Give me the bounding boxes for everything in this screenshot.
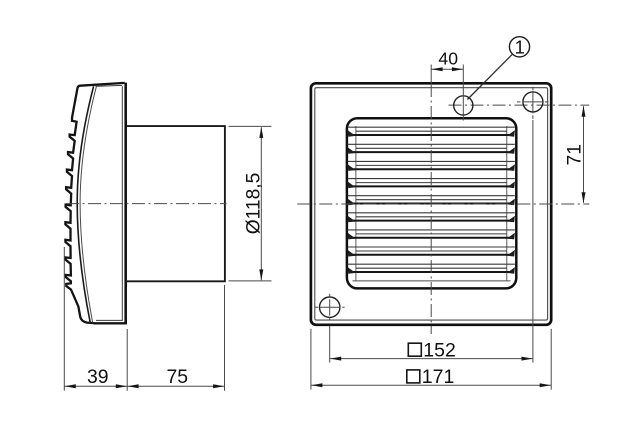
callout leader line: [467, 54, 512, 99]
top middle hole vertical extension: [462, 65, 464, 121]
cover front crease curve (outer): [77, 86, 93, 322]
dimension Ø118,5 extension bottom: [229, 280, 272, 282]
top right hole crosshair horizontal: [517, 101, 549, 103]
mounting hole top right: [523, 92, 543, 112]
arrow 39 right: [116, 384, 127, 388]
dimension Ø118,5 extension top: [229, 125, 272, 127]
grille left bevel line: [355, 126, 357, 281]
cover bottom edge: [93, 322, 126, 324]
top right hole crosshair vertical / extension to dim 152: [532, 87, 534, 120]
grille slat 6: [348, 213, 515, 223]
svg-text:71: 71: [565, 144, 586, 165]
dim 152 line: [330, 358, 533, 360]
arrow 71 top: [582, 106, 586, 117]
svg-text:39: 39: [87, 366, 109, 388]
dimension Ø118,5 line: [260, 127, 262, 280]
hole centerline horizontal (through top holes): [449, 104, 590, 106]
vertical centerline of plate: [430, 65, 432, 85]
dim 171 extension right: [550, 329, 552, 390]
dim 171 extension left: [310, 329, 312, 390]
grille slat 8: [348, 247, 515, 257]
arrow 171 right: [540, 383, 551, 387]
label square171: [407, 370, 420, 383]
arrow 40 right: [452, 67, 463, 71]
grille frame: [347, 118, 516, 288]
dim 39/75 line: [64, 385, 224, 387]
arrow dia bottom: [259, 269, 263, 280]
cover back edge inner thin line: [121, 86, 123, 321]
dim 39/75 extension middle: [126, 329, 128, 391]
svg-text:40: 40: [438, 49, 458, 69]
dim 39/75 extension left: [63, 247, 65, 391]
cover top inner thin line: [96, 85, 123, 86]
svg-text:1: 1: [515, 36, 525, 57]
mounting hole bottom left: [320, 297, 340, 317]
arrow 152 left: [330, 357, 341, 361]
grille slat 9: [348, 264, 515, 274]
svg-text:152: 152: [423, 339, 456, 361]
dim 40 line: [431, 68, 463, 70]
arrow 75 left: [128, 384, 139, 388]
callout circle 1: [509, 37, 529, 57]
cover bottom inner thin line: [96, 319, 122, 321]
svg-text:171: 171: [422, 366, 455, 388]
inner square thin line: [315, 88, 548, 320]
cover front crease curve (inner): [80, 86, 96, 322]
dim 39/75 extension right: [224, 285, 226, 391]
mounting hole top middle: [454, 96, 473, 115]
grille slat 5: [348, 196, 515, 206]
bottom left hole crosshair horizontal: [315, 306, 345, 308]
dim 171 line: [311, 384, 551, 386]
arrow 152 right: [522, 357, 533, 361]
cover back edge (thick vertical): [124, 83, 127, 325]
arrow 71 bottom: [582, 192, 586, 203]
arrow 40 left: [432, 67, 443, 71]
duct (wall tube): [127, 126, 225, 281]
fan cover outline (side view with louvre teeth): [65, 83, 124, 323]
label square152: [408, 343, 421, 356]
grille bottom bevel line: [353, 280, 511, 282]
dim 71 line: [583, 106, 585, 203]
grille slat 3: [348, 161, 515, 171]
arrow 75 right: [213, 384, 224, 388]
bottom left hole extension to dim 152: [329, 326, 331, 363]
grille right bevel line: [506, 126, 508, 281]
arrow 171 left: [311, 383, 322, 387]
bottom left hole crosshair vertical: [329, 294, 331, 320]
horizontal centerline of plate: [297, 203, 589, 205]
outer square plate: [311, 83, 551, 324]
grille slat 2: [348, 144, 515, 154]
arrow 39 left: [65, 384, 76, 388]
grille slat 4: [348, 179, 515, 189]
left view horizontal centerline: [66, 203, 227, 205]
grille slat 7: [348, 230, 515, 240]
svg-text:75: 75: [167, 366, 189, 388]
svg-text:Ø118,5: Ø118,5: [243, 173, 264, 235]
arrow dia top: [259, 127, 263, 138]
grille slat 1: [348, 127, 515, 137]
